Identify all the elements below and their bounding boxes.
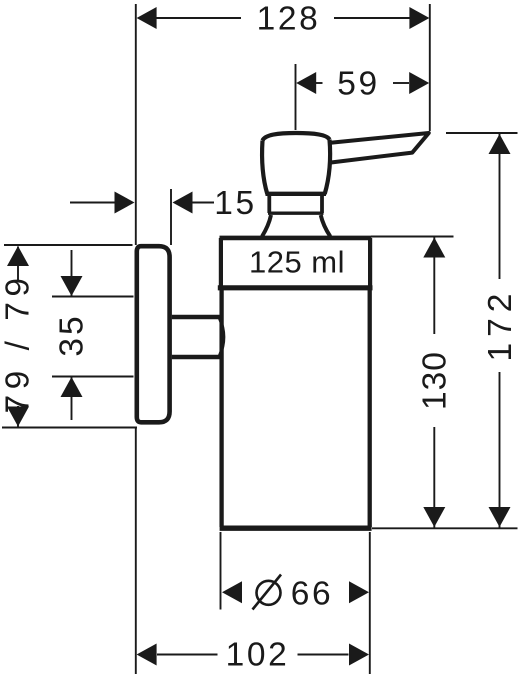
arrow 35 top (points down) bbox=[61, 276, 83, 296]
arrow 35 bottom (points up) bbox=[61, 377, 83, 397]
pump neck left bbox=[267, 196, 271, 213]
wall plate bbox=[137, 246, 170, 422]
extension line 35 top bbox=[52, 296, 134, 298]
holder arm top bbox=[172, 315, 220, 319]
container body right wall bbox=[368, 290, 372, 527]
extension line 79/79 top bbox=[4, 244, 133, 246]
arrow 102 left bbox=[137, 644, 157, 666]
container bottom line bbox=[220, 526, 372, 531]
dimension line 128 bbox=[156, 17, 241, 19]
container band bottom line bbox=[218, 285, 373, 290]
pump lever spout bbox=[328, 133, 429, 163]
svg-text:128: 128 bbox=[257, 1, 321, 38]
extension line 130 top bbox=[371, 236, 454, 238]
extension line 172 top bbox=[446, 132, 518, 134]
dimension line 15 bbox=[70, 202, 115, 204]
container top rim line bbox=[220, 236, 372, 241]
svg-text:172: 172 bbox=[482, 288, 519, 362]
arrow dia66 right bbox=[349, 581, 369, 603]
pump neck bottom line bbox=[268, 211, 324, 214]
extension line 15 right bbox=[170, 189, 172, 245]
svg-text:130: 130 bbox=[417, 351, 454, 410]
pump skirt left bbox=[262, 215, 271, 237]
arrow 59 right bbox=[409, 72, 429, 94]
svg-text:79 / 79: 79 / 79 bbox=[0, 273, 37, 414]
container body left wall bbox=[219, 290, 223, 527]
pump skirt right bbox=[321, 215, 331, 237]
arrow 59 left bbox=[296, 72, 316, 94]
dimension line 79/79 bbox=[17, 247, 19, 281]
dimension line 102 bbox=[157, 654, 218, 656]
extension line wall top (x=136) bbox=[135, 4, 137, 245]
container band left edge bbox=[219, 238, 223, 288]
pump body bottom line bbox=[266, 192, 327, 196]
arrow 172 top bbox=[489, 134, 511, 154]
arrow 128 left bbox=[137, 7, 157, 29]
extension line 35 bottom bbox=[52, 376, 134, 378]
holder arm bottom bbox=[172, 355, 220, 359]
svg-text:125 ml: 125 ml bbox=[249, 245, 345, 280]
extension line right of 128/59 (x=430) bbox=[429, 4, 431, 131]
extension line 130/172 bottom bbox=[372, 527, 518, 529]
arrow 172 bottom bbox=[489, 507, 511, 527]
pump head body top arc bbox=[263, 133, 330, 141]
dimension line 59 bbox=[315, 82, 323, 84]
svg-text:66: 66 bbox=[291, 576, 333, 613]
arrow 128 right bbox=[409, 7, 429, 29]
pump neck right bbox=[320, 196, 324, 213]
arrow 15 right (points left) bbox=[173, 192, 193, 214]
dimension line 35 bbox=[71, 250, 73, 296]
extension line 59 left (pump centre) bbox=[295, 64, 297, 130]
extension line dia66 left bbox=[220, 532, 222, 610]
arrow dia66 left bbox=[222, 581, 242, 603]
svg-text:59: 59 bbox=[337, 65, 379, 102]
dimension line 172 bbox=[499, 134, 501, 280]
arrow 130 top bbox=[423, 238, 445, 258]
svg-text:102: 102 bbox=[226, 637, 290, 674]
extension line right bottom (x=370) bbox=[369, 532, 371, 674]
svg-text:15: 15 bbox=[214, 185, 256, 222]
arrow 15 left (points right at wall) bbox=[115, 192, 135, 214]
pump head body right side bbox=[325, 140, 330, 195]
arrow 79 bottom bbox=[7, 407, 29, 427]
arrow 130 bottom bbox=[423, 507, 445, 527]
dimension line 130 bbox=[433, 237, 435, 334]
arrow 79 top bbox=[7, 246, 29, 266]
arrow 102 right bbox=[349, 644, 369, 666]
container band right edge bbox=[368, 238, 372, 288]
holder ring arc bbox=[220, 318, 224, 356]
svg-text:35: 35 bbox=[54, 313, 91, 356]
pump head body left side bbox=[262, 141, 267, 195]
diameter symbol bbox=[257, 581, 281, 605]
extension line wall bottom (x=136) bbox=[135, 427, 137, 674]
extension line 79/79 bottom bbox=[2, 427, 137, 429]
